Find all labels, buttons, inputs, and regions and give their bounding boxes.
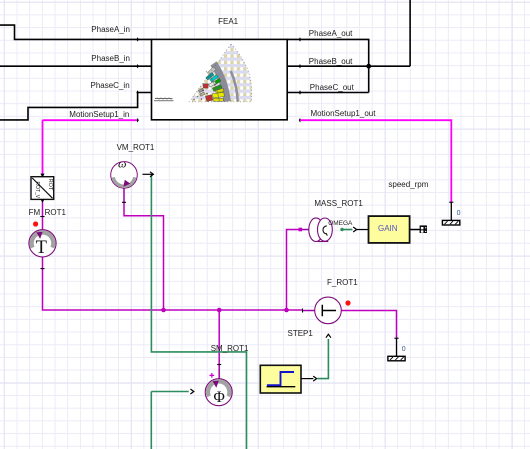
svg-text:ω: ω — [118, 157, 126, 171]
svg-text:Φ: Φ — [214, 389, 225, 406]
svg-text:ROT: ROT — [47, 179, 53, 191]
svg-text:ROT_V: ROT_V — [34, 181, 40, 198]
svg-text:T: T — [36, 238, 47, 258]
